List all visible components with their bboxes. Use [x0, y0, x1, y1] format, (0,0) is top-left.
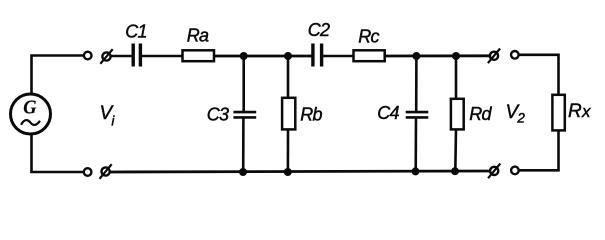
junction: node Rd top — [452, 52, 460, 60]
wire terminal to Rx top — [518, 55, 558, 95]
wire C2 to Rc — [323, 55, 354, 58]
wire C4 branch upper — [415, 56, 418, 111]
junction: node Rb top — [284, 52, 292, 60]
junction: node C4 top — [412, 52, 420, 60]
node: top input terminal — [84, 52, 92, 60]
wire Ra to C2 — [214, 55, 312, 58]
wire bottom rail — [110, 171, 490, 172]
wire Rd branch lower — [454, 129, 457, 171]
wire Rb branch upper — [287, 56, 290, 98]
node: bottom output jack (slashed) — [488, 164, 500, 179]
junction: node C3 bottom — [239, 168, 247, 176]
wire C1 to Ra — [142, 55, 183, 58]
svg-text:C2: C2 — [308, 20, 330, 40]
wire Rx bottom to terminal — [519, 130, 559, 170]
resistor Rd — [451, 99, 464, 130]
node: top load terminal — [511, 51, 519, 59]
resistor Rb — [282, 98, 295, 130]
resistor Rc — [354, 50, 385, 61]
svg-text:C3: C3 — [207, 105, 229, 125]
node: bottom input terminal — [84, 168, 92, 176]
capacitor C3 — [233, 112, 256, 117]
svg-text:x: x — [581, 102, 591, 121]
node: bottom load terminal — [511, 167, 519, 175]
svg-text:Rc: Rc — [358, 27, 379, 47]
capacitor C1 — [133, 44, 140, 67]
wire generator top lead — [32, 56, 84, 95]
wire C3 branch upper — [242, 56, 245, 111]
wire Rd branch upper — [455, 56, 458, 99]
junction: node Rd bottom — [451, 167, 459, 175]
svg-text:C4: C4 — [377, 103, 399, 123]
svg-text:R: R — [568, 101, 582, 122]
wire C4 branch lower — [414, 119, 417, 172]
node: top input jack (slashed) — [100, 49, 112, 64]
generator G — [11, 94, 51, 134]
node: bottom input jack (slashed) — [100, 164, 112, 179]
wire jack to C1 — [110, 55, 131, 58]
wire C3 branch lower — [242, 119, 245, 173]
junction: node Rb bottom — [284, 168, 292, 176]
svg-text:Rb: Rb — [300, 105, 322, 125]
wire Rc to top output jack — [385, 54, 490, 57]
svg-text:C1: C1 — [125, 22, 146, 42]
junction: node C3 top — [240, 52, 248, 60]
node: top output jack (slashed) — [488, 49, 500, 64]
capacitor C4 — [406, 112, 429, 117]
wire Rb branch lower — [287, 129, 290, 172]
resistor Ra — [183, 50, 215, 61]
junction: node C4 bottom — [412, 167, 420, 175]
resistor Rx — [552, 95, 564, 131]
wire generator bottom lead — [32, 134, 84, 172]
svg-text:Ra: Ra — [187, 26, 209, 46]
svg-text:G: G — [23, 97, 37, 119]
capacitor C2 — [313, 44, 322, 67]
svg-text:Rd: Rd — [469, 104, 492, 124]
